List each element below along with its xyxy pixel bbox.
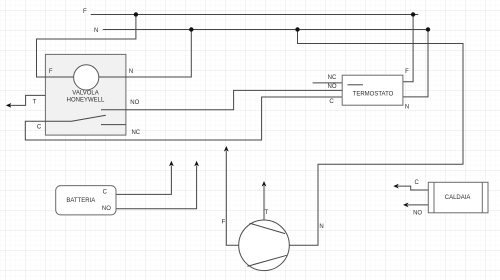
svg-text:TERMOSTATO: TERMOSTATO xyxy=(353,92,394,98)
svg-text:NC: NC xyxy=(328,75,337,81)
svg-text:N: N xyxy=(129,69,133,75)
thermostat internal contact line xyxy=(348,84,363,86)
wire N bus to pump N xyxy=(289,30,463,246)
svg-text:N: N xyxy=(94,28,98,34)
wire F supply bus xyxy=(91,14,419,16)
wire valve T lead xyxy=(10,95,45,105)
pump circulator body xyxy=(239,220,290,271)
svg-text:VALVOLA: VALVOLA xyxy=(72,91,98,97)
wire valve F feed (from F bus to valve F terminal) xyxy=(37,15,136,78)
svg-text:F: F xyxy=(405,69,409,75)
pump upper vane line xyxy=(250,223,286,233)
junction dot on F bus at valve feed xyxy=(134,12,138,16)
wire boiler C lead xyxy=(398,186,428,190)
wire valve C to thermostat C xyxy=(25,97,342,140)
wire battery C riser xyxy=(116,166,171,195)
junction dot on F bus at thermostat F xyxy=(411,12,415,16)
valve VALVOLA HONEYWELL body xyxy=(45,54,126,135)
svg-text:CALDAIA: CALDAIA xyxy=(445,195,471,201)
svg-text:NO: NO xyxy=(328,84,337,90)
valve switch blade xyxy=(72,115,106,121)
wire pump F riser xyxy=(226,151,238,245)
svg-text:C: C xyxy=(329,99,334,105)
wire pump T riser xyxy=(263,186,265,220)
svg-text:T: T xyxy=(33,100,37,106)
wire thermostat N to N bus xyxy=(403,30,428,97)
svg-text:F: F xyxy=(222,220,226,226)
arrowhead boiler NO lead (left) xyxy=(403,203,409,208)
wire boiler NO lead xyxy=(408,204,429,206)
junction dot on N bus at valve feed xyxy=(189,27,193,31)
wire battery NO riser xyxy=(116,166,197,209)
svg-text:C: C xyxy=(415,180,420,186)
arrowhead pump T riser (up) xyxy=(262,181,267,187)
svg-text:N: N xyxy=(319,224,323,230)
wire valve NO to thermostat NO xyxy=(101,90,342,109)
boiler CALDAIA body xyxy=(428,182,488,213)
svg-text:C: C xyxy=(103,189,108,195)
svg-text:T: T xyxy=(264,210,268,216)
svg-text:NO: NO xyxy=(130,100,139,106)
wire valve N feed (from N bus to valve N terminal) xyxy=(86,30,191,78)
junction dot on N bus at pump branch xyxy=(295,27,299,31)
arrowhead boiler C lead (left) xyxy=(393,184,399,189)
svg-text:NO: NO xyxy=(413,211,422,217)
pump lower vane line xyxy=(247,255,286,266)
arrowhead battery C riser (up) xyxy=(169,161,174,167)
boiler left partition line xyxy=(433,182,435,213)
svg-text:C: C xyxy=(37,125,42,131)
svg-text:F: F xyxy=(49,69,53,75)
thermostat TERMOSTATO body xyxy=(342,75,403,105)
wire thermostat F to F bus xyxy=(403,15,413,82)
svg-text:N: N xyxy=(405,104,409,110)
arrowhead battery NO riser (up) xyxy=(194,161,199,167)
wire thermostat NC stub xyxy=(313,82,343,84)
wire N supply bus xyxy=(103,29,430,31)
arrowhead pump F riser (up) xyxy=(224,146,229,152)
wire valve NC stub xyxy=(101,124,126,126)
svg-text:BATTERIA: BATTERIA xyxy=(66,198,95,204)
boiler right partition line xyxy=(481,182,483,213)
valve motor head circle xyxy=(74,65,99,90)
svg-text:F: F xyxy=(83,9,87,15)
svg-text:HONEYWELL: HONEYWELL xyxy=(67,98,105,104)
svg-text:NC: NC xyxy=(131,130,140,136)
junction dot on N bus at thermostat N xyxy=(426,27,430,31)
arrowhead valve T lead (left) xyxy=(6,103,12,108)
svg-text:NO: NO xyxy=(102,206,111,212)
battery BATTERIA body xyxy=(56,186,116,215)
